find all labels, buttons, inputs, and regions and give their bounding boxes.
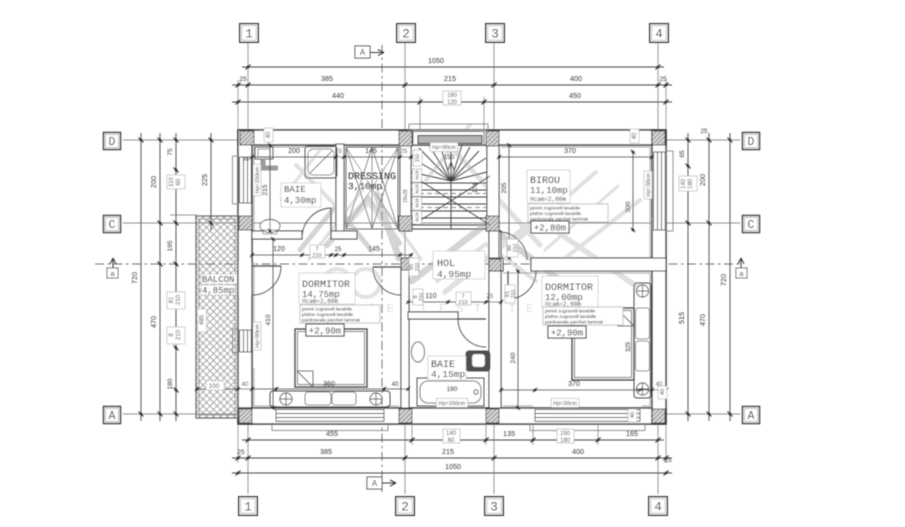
section marker a left: [110, 258, 116, 278]
extension lines top: [238, 80, 666, 130]
axis bubble C left: [104, 216, 121, 233]
svg-text:BALCON: BALCON: [202, 275, 234, 285]
dim total 1050 top: [242, 66, 664, 68]
section marker A top: [355, 46, 370, 58]
svg-text:720: 720: [130, 272, 139, 284]
svg-text:60: 60: [448, 438, 455, 444]
dim row 455/140/135/150/165 bottom: [242, 439, 664, 441]
svg-text:25: 25: [335, 247, 342, 253]
stair bottom edge: [411, 228, 487, 230]
svg-text:410: 410: [265, 314, 272, 325]
interior wall baie-dressing: [336, 144, 344, 239]
svg-text:120: 120: [447, 100, 458, 106]
svg-text:plafon zugraveli lavabile: plafon zugraveli lavabile: [530, 211, 582, 217]
axis D line: [123, 139, 740, 141]
svg-text:Hp=30cm: Hp=30cm: [646, 173, 652, 197]
column top-left: [240, 131, 254, 145]
door birou (arc): [498, 232, 500, 260]
svg-text:Hcam=2,60m: Hcam=2,60m: [302, 298, 338, 305]
svg-text:75: 75: [167, 148, 174, 156]
room label BIROU 11,10mp: [527, 170, 570, 203]
sill left baie window: [233, 156, 239, 204]
svg-text:140: 140: [446, 431, 457, 437]
svg-text:120: 120: [273, 246, 285, 253]
svg-text:1050: 1050: [445, 462, 461, 471]
window right birou Hp30: [653, 152, 666, 230]
axis bubble 3 bottom: [485, 497, 504, 516]
svg-text:4: 4: [655, 27, 663, 41]
interior wall baie2-dormitor-right: [489, 231, 501, 408]
dim 240 dormitor-right left: [517, 271, 519, 408]
lamp symbol left: [280, 393, 292, 405]
svg-text:40: 40: [630, 412, 636, 418]
window left baie Hp150: [239, 157, 252, 203]
svg-text:Hp=150cm: Hp=150cm: [255, 166, 261, 193]
dim 200/470 left: [159, 133, 161, 421]
note block birou: [528, 204, 608, 222]
svg-text:2: 2: [401, 500, 409, 514]
section line A-A horizontal: [95, 263, 742, 265]
label 8/210 hol-baie door: [413, 289, 423, 305]
label Hp=150cm bathtub: [436, 399, 467, 408]
svg-text:210: 210: [419, 293, 425, 302]
svg-text:65: 65: [679, 150, 686, 158]
svg-text:440: 440: [332, 91, 344, 100]
interior wall birou bottom / dormitor-right top: [489, 258, 503, 271]
lamp symbol top: [637, 285, 649, 297]
dim row 440/160/450 top: [232, 101, 672, 103]
column axis3 bottom: [486, 409, 499, 423]
svg-text:455: 455: [326, 429, 338, 438]
door balcony (arc): [252, 265, 281, 267]
axis bubble 4 top: [650, 24, 669, 43]
bathtub baie-bottom: [417, 378, 484, 406]
svg-text:40: 40: [242, 382, 249, 388]
svg-text:pardoseala parchet laminat: pardoseala parchet laminat: [545, 320, 604, 326]
watermark lettering: [323, 269, 351, 297]
sill right birou window: [666, 151, 673, 231]
svg-text:3: 3: [491, 27, 499, 41]
svg-text:174: 174: [473, 182, 479, 193]
svg-text:Hcam=2,60m: Hcam=2,60m: [530, 196, 566, 203]
label Hp=150cm left window: [253, 164, 261, 195]
svg-text:25: 25: [401, 149, 408, 155]
room label DORMITOR 12,00mp: [542, 276, 598, 307]
room label BAIE 4,15mp: [428, 356, 466, 380]
svg-text:C: C: [109, 219, 116, 232]
svg-text:210: 210: [176, 294, 182, 305]
svg-text:325: 325: [626, 341, 632, 352]
svg-text:25: 25: [487, 294, 494, 300]
svg-text:C: C: [748, 219, 755, 232]
extension lines left: [170, 214, 197, 216]
svg-text:180: 180: [167, 378, 174, 389]
window bottom dormitor-left: [276, 409, 384, 424]
label 40 wall corners bottom: [658, 386, 667, 399]
svg-text:150: 150: [560, 431, 571, 437]
axis bubble A right: [743, 407, 760, 424]
svg-text:200: 200: [698, 174, 707, 186]
dim total 1050 bottom: [232, 472, 672, 474]
svg-text:470: 470: [698, 314, 707, 326]
sill bottom-right window: [530, 424, 645, 431]
svg-text:25: 25: [239, 76, 247, 83]
exterior wall right: [652, 130, 666, 424]
svg-text:215: 215: [262, 184, 269, 195]
note block dormitor-right: [543, 307, 623, 325]
svg-text:plafon zugraveli lavabile: plafon zugraveli lavabile: [302, 312, 354, 318]
dim 370 birou top: [499, 156, 652, 158]
svg-text:4,85mp: 4,85mp: [202, 286, 234, 296]
svg-text:28x28: 28x28: [403, 189, 409, 203]
dim 205 birou left: [508, 145, 510, 258]
stair width label 150: [413, 150, 422, 166]
svg-text:Hp=90cm: Hp=90cm: [432, 145, 456, 151]
bed dormitor-left: [295, 329, 367, 387]
svg-text:165: 165: [626, 429, 638, 438]
svg-text:110: 110: [425, 293, 436, 300]
svg-text:205: 205: [501, 182, 508, 193]
toilet baie-bottom: [466, 351, 490, 371]
svg-text:210: 210: [312, 253, 321, 259]
axis bubble D left: [104, 133, 121, 150]
label Hp=90cm left window2: [253, 322, 261, 350]
interior wall hol-dormitor-left: [401, 267, 409, 408]
svg-text:8x28: 8x28: [415, 198, 420, 208]
dim 485 balcony: [198, 309, 207, 332]
svg-text:370: 370: [568, 381, 580, 388]
axis bubble 2 top: [397, 24, 416, 43]
svg-text:a: a: [111, 271, 115, 278]
section line A-A vertical: [381, 45, 383, 492]
bed dormitor-right: [572, 308, 634, 380]
window bottom dormitor-right: [535, 409, 640, 424]
axis bubble A left: [104, 407, 121, 424]
staircase: [411, 145, 490, 229]
axis bubble D right: [743, 133, 760, 150]
column hol junction: [401, 258, 413, 270]
svg-text:400: 400: [572, 447, 584, 456]
interior wall stairs-birou: [487, 145, 499, 231]
wall finish lines: [254, 147, 650, 406]
svg-text:A: A: [360, 48, 366, 57]
column top-right: [652, 131, 665, 145]
column axis2 top: [399, 131, 412, 146]
room label HOL 4,95mp: [433, 251, 485, 279]
svg-text:210: 210: [176, 329, 182, 340]
column birou corner: [489, 259, 501, 271]
svg-text:pardoseala parchet laminat: pardoseala parchet laminat: [302, 318, 361, 324]
column axis3 top: [486, 131, 499, 146]
dim 120/7/25/145 under baie: [252, 254, 411, 256]
svg-text:300: 300: [625, 201, 632, 212]
column stairs bottom-right: [486, 216, 499, 231]
duct elbow baie-top: [263, 159, 278, 168]
svg-text:60: 60: [176, 178, 182, 185]
axis 3 line: [493, 42, 495, 494]
section marker a right: [738, 258, 744, 278]
svg-text:195: 195: [167, 240, 174, 251]
dim 110/7/25 hol: [408, 301, 501, 303]
svg-text:450: 450: [569, 91, 581, 100]
axis A line: [123, 413, 740, 415]
sill left dormitor window: [233, 329, 239, 353]
label Hp=90cm stairs: [430, 143, 458, 152]
stair tread number labels: [413, 169, 422, 182]
column axis2 bottom: [399, 409, 412, 423]
axis 4 line: [657, 42, 659, 494]
label Hp=30cm bottom window: [551, 399, 579, 408]
svg-text:215: 215: [442, 447, 454, 456]
interior wall baie bottom: [252, 231, 302, 239]
watermark roof logo: [281, 125, 645, 292]
svg-text:110: 110: [169, 177, 175, 187]
extension lines bottom: [238, 424, 666, 463]
svg-text:Hp=90cm: Hp=90cm: [255, 324, 261, 348]
label 81/210 door dormitor-right: [505, 285, 515, 303]
elevation +2,90m dormitor-left: [306, 324, 344, 336]
dim 100/40/360/40 bottom interior: [197, 388, 408, 390]
svg-text:3: 3: [490, 500, 498, 514]
svg-text:8x28: 8x28: [415, 212, 420, 222]
exterior wall top: [238, 130, 666, 145]
door dormitor-left (arc): [373, 266, 401, 268]
svg-text:240: 240: [510, 352, 517, 363]
room label BALCON 4,85mp: [201, 274, 237, 284]
svg-text:160: 160: [447, 93, 458, 99]
dim 410 dormitor-left: [272, 239, 274, 408]
svg-text:385: 385: [321, 74, 333, 83]
section marker A bottom: [367, 477, 382, 489]
svg-text:225: 225: [200, 174, 209, 186]
label 80/210 door birou: [507, 239, 518, 257]
svg-text:200: 200: [288, 148, 300, 155]
axis bubble 4 bottom: [649, 497, 668, 516]
dim 75/110/195/180 left: [175, 133, 177, 421]
svg-text:4,95mp: 4,95mp: [437, 269, 472, 280]
svg-text:150: 150: [415, 154, 421, 163]
svg-text:135: 135: [503, 429, 515, 438]
window top stairs: [413, 131, 484, 145]
svg-text:plafon zugraveli lavabile: plafon zugraveli lavabile: [545, 314, 597, 320]
svg-text:8x28: 8x28: [415, 184, 420, 194]
svg-text:180: 180: [560, 438, 571, 444]
svg-text:210: 210: [511, 290, 517, 299]
svg-text:D: D: [748, 136, 755, 149]
svg-text:40: 40: [392, 382, 399, 388]
lamp symbol bottom: [637, 383, 649, 395]
bed platform band dormitor-left: [270, 391, 390, 407]
dim 720 right: [729, 133, 731, 421]
exterior wall left: [238, 130, 252, 424]
axis bubble 2 bottom: [396, 497, 415, 516]
sill bottom-left window: [272, 424, 388, 431]
svg-text:3,10mp: 3,10mp: [348, 181, 383, 192]
interior wall dressing-stairs: [400, 145, 411, 231]
svg-text:515: 515: [677, 312, 686, 324]
svg-text:8x28: 8x28: [415, 170, 420, 180]
svg-text:1: 1: [244, 500, 252, 514]
label 90/210 door dormitor-left: [409, 258, 419, 276]
door baie-top (arc): [330, 208, 332, 239]
dim 200/5/145/25 baie-dressing top: [252, 156, 411, 158]
svg-text:720: 720: [719, 274, 728, 286]
svg-text:+2,80m: +2,80m: [534, 224, 566, 234]
svg-text:a: a: [740, 271, 744, 278]
svg-text:pereti zugraveli lavabile: pereti zugraveli lavabile: [530, 206, 580, 212]
svg-text:100: 100: [209, 383, 220, 390]
svg-text:40: 40: [660, 389, 666, 395]
svg-text:40: 40: [632, 132, 638, 139]
svg-text:A: A: [748, 410, 755, 423]
label 40 birou top-right: [630, 129, 639, 143]
svg-text:400: 400: [570, 74, 582, 83]
label Hp=30cm right window: [644, 171, 652, 199]
axis bubble 1 bottom: [239, 497, 258, 516]
window left dormitor Hp90: [239, 330, 252, 352]
svg-text:40: 40: [266, 131, 272, 138]
svg-text:210: 210: [415, 263, 421, 272]
shower cabin baie-top: [305, 146, 337, 178]
balcony outline crosshatched: [196, 216, 238, 418]
svg-text:1050: 1050: [428, 56, 444, 65]
svg-text:25: 25: [237, 449, 245, 456]
axis bubble C right: [743, 216, 760, 233]
svg-text:145: 145: [365, 148, 377, 155]
dim 370/40 dormitor-right bottom: [501, 389, 666, 391]
lamp symbol right: [370, 393, 382, 405]
axis bubble 1 top: [240, 24, 259, 43]
svg-text:Hp=150cm: Hp=150cm: [439, 401, 466, 407]
svg-text:485: 485: [200, 314, 206, 325]
wardrobe dressing: [346, 147, 398, 229]
svg-text:A: A: [372, 479, 378, 488]
svg-text:25: 25: [664, 457, 672, 464]
column stairs bottom-left: [399, 216, 412, 231]
svg-text:4: 4: [654, 500, 662, 514]
column left axis C: [239, 216, 252, 230]
dim row 385/215/400 top: [232, 84, 672, 86]
sink baie-top: [260, 220, 280, 233]
axis C line: [123, 222, 740, 224]
svg-text:11,10mp: 11,10mp: [530, 186, 568, 196]
svg-text:+2,90m: +2,90m: [309, 327, 341, 337]
svg-text:40: 40: [243, 157, 250, 163]
column bottom-right: [652, 409, 665, 423]
axis bubble 3 top: [486, 24, 505, 43]
svg-text:Hp=30cm: Hp=30cm: [553, 401, 577, 407]
svg-text:215: 215: [444, 74, 456, 83]
bed platform band dormitor-right: [634, 283, 651, 398]
axis 1 line: [247, 42, 249, 494]
svg-text:145: 145: [368, 246, 380, 253]
washer baie-top: [255, 147, 273, 159]
sink baie-bottom: [412, 342, 425, 362]
dim 215 baie left: [269, 145, 271, 231]
door dormitor-right (arc): [507, 271, 509, 299]
elevation +2,90m dormitor-right: [548, 326, 586, 338]
svg-text:4,30mp: 4,30mp: [284, 196, 316, 206]
svg-text:210: 210: [458, 300, 467, 306]
column bottom-left: [239, 409, 252, 423]
svg-text:81: 81: [169, 296, 175, 303]
svg-text:140: 140: [681, 178, 687, 189]
svg-text:370: 370: [564, 148, 576, 155]
axis 2 line: [404, 42, 406, 494]
room label BAIE 4,30mp: [281, 183, 321, 207]
svg-text:190: 190: [447, 386, 458, 393]
dim 65/140/515 right: [687, 133, 689, 421]
door baie-bottom (arc): [458, 318, 486, 320]
dim 225 left: [210, 133, 212, 230]
dim 200/470 right: [708, 133, 710, 421]
svg-text:470: 470: [149, 316, 158, 328]
svg-text:D: D: [109, 136, 116, 149]
svg-text:25: 25: [659, 76, 667, 83]
svg-text:pereti zugraveli lavabile: pereti zugraveli lavabile: [302, 307, 352, 313]
exterior wall bottom: [238, 408, 666, 424]
wall opening balcony door: [239, 262, 252, 296]
svg-text:210: 210: [513, 244, 519, 253]
svg-text:4,15mp: 4,15mp: [431, 369, 466, 380]
svg-text:25: 25: [701, 129, 708, 135]
svg-text:360: 360: [323, 381, 335, 388]
room label DORMITOR 14,75mp: [299, 273, 355, 304]
svg-text:150: 150: [444, 154, 455, 161]
column right axis C: [652, 216, 665, 230]
note block dormitor-left: [300, 305, 380, 323]
label 40 top-left wall: [264, 128, 273, 142]
svg-text:pereti zugraveli lavabile: pereti zugraveli lavabile: [545, 309, 595, 315]
dim row 385/215/400 bottom: [232, 457, 672, 459]
svg-text:385: 385: [320, 447, 332, 456]
svg-text:180: 180: [688, 178, 694, 189]
svg-text:+2,90m: +2,90m: [551, 329, 583, 339]
svg-text:200: 200: [149, 176, 158, 188]
dim 720 left: [140, 133, 142, 421]
elevation +2,80m birou: [531, 221, 569, 233]
svg-text:A: A: [109, 410, 116, 423]
svg-text:BAIE: BAIE: [284, 185, 306, 195]
svg-text:2: 2: [402, 27, 410, 41]
svg-text:1: 1: [245, 27, 253, 41]
dim 300 birou right: [632, 152, 634, 230]
interior wall baie2 top: [408, 312, 458, 319]
